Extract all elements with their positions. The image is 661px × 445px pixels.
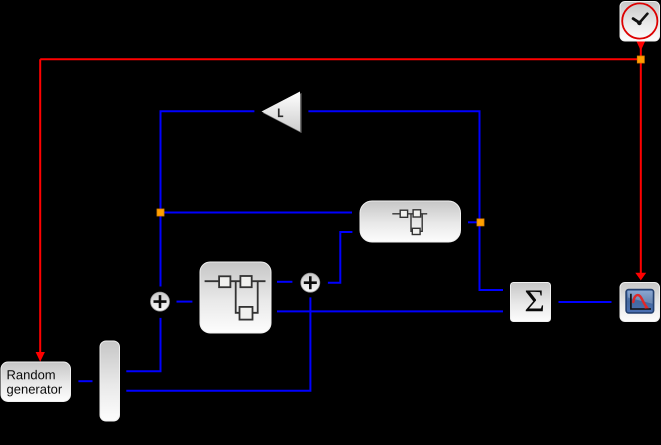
wire: bar output 2 to right sum bottom — [126, 297, 310, 390]
junction: orange link split on clock line — [637, 56, 644, 63]
block: summation SIGMA — [511, 283, 551, 322]
wire: red event link horizontal from left corner to clock junction — [40, 58, 641, 60]
wire: big block output 1 stub to right sum — [277, 281, 292, 283]
arrowhead: red into random generator — [36, 352, 45, 362]
block: scope CSCOPE — [620, 283, 660, 322]
svg-text:generator: generator — [6, 382, 62, 397]
junction: orange link split at superblock output — [477, 219, 484, 226]
wire: gain output left segment and corner down — [161, 111, 255, 286]
wire: red event link vertical left down to random generator — [39, 59, 41, 352]
wire: big block output 2 to sigma input 2 — [277, 310, 503, 312]
wire: junction to superblock input 1 — [161, 212, 352, 214]
arrowhead: red below clock — [636, 41, 645, 51]
block: gain L — [262, 92, 302, 134]
wire: sigma output to scope — [559, 301, 612, 303]
wire: random generator output stub to bar — [78, 380, 92, 382]
svg-text:Σ: Σ — [524, 284, 544, 319]
block: clock CLOCK_c — [620, 2, 660, 42]
wire: left sum output stub to big block — [177, 301, 193, 303]
wire: bar output 1 to left sum bottom — [126, 318, 160, 371]
wire: superblock output stub to junction — [468, 221, 477, 223]
junction: orange link split left vertical — [157, 209, 164, 216]
block: plant model (big block) — [200, 262, 271, 333]
block: right sum — [301, 273, 320, 292]
arrowhead: red into scope — [635, 273, 646, 281]
block: random generator — [1, 362, 71, 402]
wire: red event link vertical right from clock to scope — [640, 41, 642, 273]
block: demux bar — [100, 341, 120, 421]
wire: right sum output up into superblock input 2 — [328, 232, 353, 283]
block: left sum — [151, 292, 170, 311]
svg-text:Random: Random — [6, 367, 55, 382]
block: superblock (observer) — [360, 201, 461, 242]
wire: gain input right segment up corner — [308, 111, 503, 290]
